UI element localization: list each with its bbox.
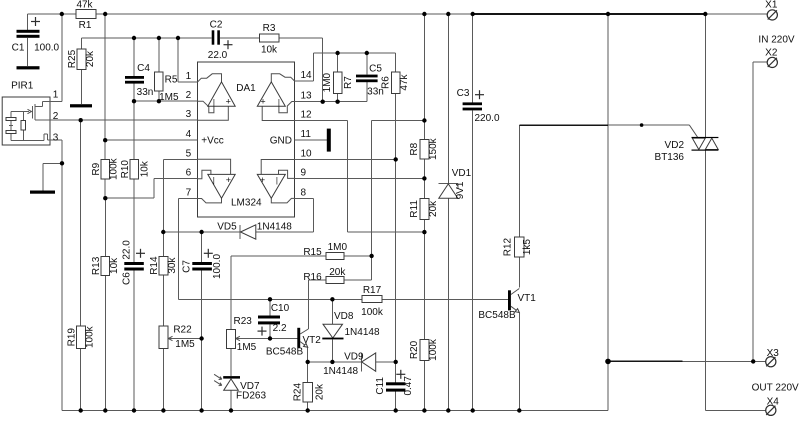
svg-text:R5: R5 <box>165 75 178 86</box>
svg-text:R3: R3 <box>263 23 276 34</box>
svg-text:6: 6 <box>186 168 192 179</box>
svg-text:100.0: 100.0 <box>212 254 223 279</box>
svg-text:VD1: VD1 <box>452 168 472 179</box>
svg-text:150k: 150k <box>428 137 439 160</box>
svg-text:10k: 10k <box>139 160 150 177</box>
svg-text:1M0: 1M0 <box>328 242 348 253</box>
svg-text:0.47: 0.47 <box>403 376 414 396</box>
svg-text:R14: R14 <box>149 256 160 275</box>
svg-text:2.2: 2.2 <box>273 323 287 334</box>
svg-text:20k: 20k <box>314 383 325 400</box>
svg-text:X1: X1 <box>765 0 778 10</box>
svg-text:IN 220V: IN 220V <box>758 35 794 46</box>
svg-text:C4: C4 <box>137 63 150 74</box>
svg-text:R7: R7 <box>343 76 354 89</box>
svg-text:C2: C2 <box>210 20 223 31</box>
svg-text:C11: C11 <box>375 377 386 395</box>
svg-text:C3: C3 <box>457 88 470 99</box>
svg-text:+Vcc: +Vcc <box>201 136 224 147</box>
svg-text:|: | <box>213 98 215 107</box>
svg-text:|: | <box>213 176 215 185</box>
svg-text:1: 1 <box>53 90 59 101</box>
svg-text:11: 11 <box>301 129 312 140</box>
svg-text:|: | <box>276 176 278 185</box>
svg-text:X3: X3 <box>767 348 780 359</box>
svg-text:R24: R24 <box>293 382 304 401</box>
svg-text:+: + <box>260 97 265 107</box>
svg-text:+: + <box>226 97 231 107</box>
svg-text:1N4148: 1N4148 <box>344 327 379 338</box>
svg-text:20k: 20k <box>85 50 96 67</box>
svg-text:9V1: 9V1 <box>455 181 466 199</box>
svg-text:R8: R8 <box>409 142 420 155</box>
svg-text:1M5: 1M5 <box>175 339 195 350</box>
svg-text:1M5: 1M5 <box>237 342 257 353</box>
svg-text:R23: R23 <box>234 316 253 327</box>
svg-text:X2: X2 <box>765 47 778 58</box>
svg-text:+: + <box>226 175 231 185</box>
svg-text:1M0: 1M0 <box>322 72 333 92</box>
svg-text:DA1: DA1 <box>236 83 256 94</box>
svg-text:R19: R19 <box>66 328 77 347</box>
svg-text:9: 9 <box>301 167 307 178</box>
svg-text:1N4148: 1N4148 <box>257 222 292 233</box>
svg-text:30k: 30k <box>167 257 178 274</box>
svg-text:8: 8 <box>301 187 307 198</box>
svg-text:100.0: 100.0 <box>34 43 59 54</box>
svg-text:2: 2 <box>53 111 59 122</box>
svg-text:VT1: VT1 <box>518 293 537 304</box>
svg-text:VD9: VD9 <box>344 351 364 362</box>
svg-text:3: 3 <box>186 109 192 120</box>
svg-text:OUT 220V: OUT 220V <box>752 383 799 394</box>
svg-text:PIR1: PIR1 <box>11 81 34 92</box>
svg-text:R17: R17 <box>363 285 382 296</box>
svg-text:+: + <box>260 175 265 185</box>
svg-text:R10: R10 <box>120 160 131 179</box>
svg-text:C1: C1 <box>12 43 25 54</box>
svg-text:BC548B: BC548B <box>478 310 516 321</box>
svg-text:10k: 10k <box>261 44 278 55</box>
svg-text:13: 13 <box>301 91 313 102</box>
svg-text:R12: R12 <box>503 237 514 256</box>
svg-text:33n: 33n <box>137 87 154 98</box>
svg-text:14: 14 <box>301 70 313 81</box>
svg-text:47k: 47k <box>76 0 93 11</box>
svg-text:100k: 100k <box>85 325 96 348</box>
svg-text:R9: R9 <box>91 162 102 175</box>
svg-text:|: | <box>278 98 280 107</box>
svg-text:X4: X4 <box>767 397 780 408</box>
svg-text:C10: C10 <box>271 303 290 314</box>
svg-text:GND: GND <box>270 136 292 147</box>
svg-text:100k: 100k <box>428 338 439 361</box>
svg-text:LM324: LM324 <box>231 198 262 209</box>
svg-text:3: 3 <box>53 132 59 143</box>
svg-text:VT2: VT2 <box>303 335 322 346</box>
svg-text:R22: R22 <box>173 324 192 335</box>
svg-text:5: 5 <box>186 148 192 159</box>
svg-text:47k: 47k <box>399 74 410 91</box>
svg-text:100k: 100k <box>361 307 384 318</box>
svg-text:C5: C5 <box>369 63 382 74</box>
svg-text:FD263: FD263 <box>236 390 266 401</box>
svg-text:1k5: 1k5 <box>522 239 533 256</box>
svg-text:R1: R1 <box>79 20 92 31</box>
svg-text:22.0: 22.0 <box>122 240 133 260</box>
svg-text:VD8: VD8 <box>334 311 354 322</box>
svg-text:10: 10 <box>301 149 313 160</box>
svg-text:1N4148: 1N4148 <box>323 366 358 377</box>
svg-text:VD5: VD5 <box>217 222 237 233</box>
svg-text:R25: R25 <box>67 49 78 68</box>
svg-text:VD2: VD2 <box>665 140 685 151</box>
svg-text:R13: R13 <box>91 256 102 275</box>
svg-text:2: 2 <box>186 90 192 101</box>
svg-text:R6: R6 <box>381 76 392 89</box>
svg-text:BC548B: BC548B <box>266 347 304 358</box>
svg-text:220.0: 220.0 <box>474 113 499 124</box>
svg-text:22.0: 22.0 <box>208 50 228 61</box>
svg-text:20k: 20k <box>329 267 346 278</box>
svg-text:R15: R15 <box>303 247 322 258</box>
svg-text:20k: 20k <box>428 200 439 217</box>
svg-text:R11: R11 <box>409 200 420 218</box>
svg-text:12: 12 <box>301 110 313 121</box>
svg-text:R16: R16 <box>303 272 322 283</box>
svg-text:1: 1 <box>186 71 192 82</box>
svg-text:100k: 100k <box>109 157 120 180</box>
svg-text:C6: C6 <box>122 272 133 285</box>
svg-text:4: 4 <box>186 129 192 140</box>
svg-text:1M5: 1M5 <box>159 92 179 103</box>
svg-text:BT136: BT136 <box>655 152 685 163</box>
svg-text:7: 7 <box>186 188 192 199</box>
svg-text:R20: R20 <box>409 340 420 359</box>
svg-text:C7: C7 <box>181 260 192 273</box>
svg-text:10k: 10k <box>109 257 120 274</box>
